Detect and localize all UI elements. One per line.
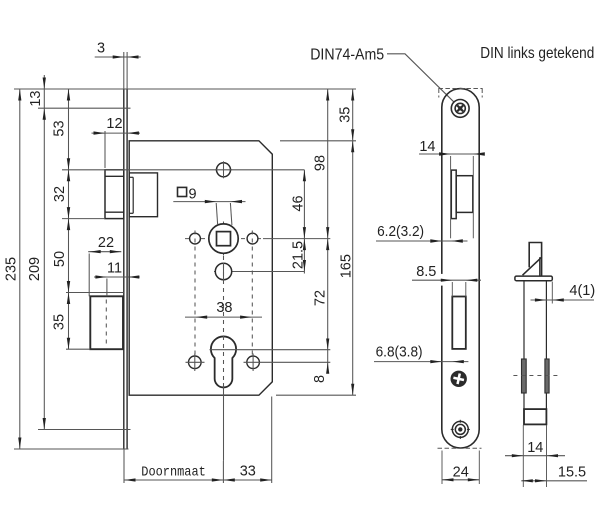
svg-text:8.5: 8.5 <box>416 264 436 280</box>
svg-text:35: 35 <box>51 314 67 330</box>
follower boss right <box>545 359 549 393</box>
svg-text:6.8(3.8): 6.8(3.8) <box>376 344 423 360</box>
faceplate cross-section <box>515 276 552 281</box>
svg-text:24: 24 <box>453 464 469 480</box>
top fixing screw <box>451 100 469 118</box>
centre line dashed <box>513 375 559 377</box>
latch bolt top view <box>529 243 541 277</box>
svg-text:32: 32 <box>52 186 68 202</box>
latch bevel <box>523 257 542 275</box>
svg-text:50: 50 <box>52 251 68 267</box>
latch bolt tail inside case <box>129 173 157 217</box>
centre line through follower top hole <box>62 169 304 171</box>
dimension 14 extension lines right view <box>522 425 524 487</box>
dimension 38 line <box>185 316 262 318</box>
svg-text:14: 14 <box>419 139 435 155</box>
bottom hole right <box>247 356 260 369</box>
svg-text:21.5: 21.5 <box>291 241 307 269</box>
svg-text:53: 53 <box>52 120 68 136</box>
case end block <box>524 409 546 424</box>
follower top hole <box>217 163 231 177</box>
case sides top view <box>523 281 525 425</box>
centre line through middle hole <box>214 271 304 273</box>
dimension 98/72/8 line <box>327 89 329 368</box>
dimension 53/32/50/35 line <box>68 89 70 349</box>
bottom hole left <box>189 356 202 369</box>
dimension 46/21.5 line <box>303 170 305 274</box>
dimension 6.2(3.2) line <box>376 240 468 242</box>
dimension 4(1) line <box>531 299 595 301</box>
dimension 15.5 line <box>521 480 587 482</box>
euro profile cylinder hole <box>211 336 236 387</box>
dimension 6.8(3.8) line <box>374 361 468 363</box>
svg-text:98: 98 <box>313 155 329 171</box>
dimension 3 extension lines <box>123 52 125 89</box>
leader line to faceplate <box>387 54 454 102</box>
latch bolt front view body <box>456 176 473 213</box>
svg-text:35: 35 <box>337 107 353 123</box>
svg-text:209: 209 <box>27 257 43 281</box>
dimension square 9 line <box>173 201 245 203</box>
extension line 50/35 boundary <box>66 292 124 294</box>
doornmaat extension lines <box>123 449 125 483</box>
dimension 11 line <box>106 279 108 297</box>
extension line deadbolt bottom <box>66 348 90 350</box>
dimension 3 line <box>95 56 141 58</box>
doornmaat dimension line <box>124 479 272 481</box>
svg-text:12: 12 <box>106 116 122 132</box>
dimension 14 line <box>419 153 483 155</box>
dimension 35/165 line <box>352 89 354 395</box>
deadbolt slot <box>452 297 466 349</box>
deadbolt centre line dashed <box>105 300 107 346</box>
dimension 8.5 extension lines <box>451 282 453 297</box>
lock case body outline <box>129 141 272 395</box>
svg-text:14: 14 <box>527 440 543 456</box>
svg-text:11: 11 <box>107 261 122 277</box>
9mm square spindle hole <box>217 232 231 246</box>
dimension 12 line <box>104 131 106 168</box>
svg-text:4(1): 4(1) <box>569 283 595 299</box>
svg-text:13: 13 <box>28 91 44 107</box>
dimension square 9 text <box>178 187 187 196</box>
middle countersunk screw <box>451 371 466 386</box>
bottom fixing screw <box>452 421 468 437</box>
fixing hole left of nut <box>190 233 201 244</box>
dimension 14 line right view <box>505 455 565 457</box>
svg-text:9: 9 <box>188 187 196 203</box>
svg-text:3: 3 <box>97 40 105 56</box>
break in plate edge at 8.5 arrow <box>441 274 443 286</box>
svg-text:72: 72 <box>313 290 329 306</box>
latch bolt head <box>105 170 124 219</box>
svg-text:DIN links getekend: DIN links getekend <box>480 45 594 62</box>
follower boss left <box>522 359 527 393</box>
dimension 235 line <box>19 89 21 449</box>
dashed hole centre line left <box>194 231 196 357</box>
dashed square-end option top <box>438 88 482 90</box>
spindle nut centre lines <box>185 238 263 240</box>
svg-text:165: 165 <box>339 254 355 278</box>
svg-text:235: 235 <box>4 257 20 281</box>
svg-text:6.2(3.2): 6.2(3.2) <box>377 224 424 240</box>
svg-text:Doornmaat: Doornmaat <box>141 466 206 481</box>
dimension 13/209 line <box>43 75 45 430</box>
svg-text:DIN74-Am5: DIN74-Am5 <box>310 47 384 64</box>
middle hole <box>215 263 231 279</box>
extension line latch bottom <box>62 218 105 220</box>
latch bolt front view lip <box>451 170 456 219</box>
spindle follower nut <box>209 224 238 253</box>
svg-text:15.5: 15.5 <box>558 464 586 480</box>
dashed square-end option bottom <box>438 447 482 449</box>
fixing hole right of nut <box>247 233 258 244</box>
svg-text:8: 8 <box>312 375 328 383</box>
dimension 24 extension lines <box>441 451 443 485</box>
svg-text:33: 33 <box>240 464 256 480</box>
dimension 8.5 line <box>412 279 481 281</box>
svg-text:38: 38 <box>216 300 232 316</box>
faceplate edge view (left) <box>123 89 125 449</box>
svg-text:22: 22 <box>98 235 114 251</box>
deadbolt head <box>90 296 123 349</box>
faceplate front view outline <box>442 89 479 448</box>
dashed hole centre line right <box>251 231 253 357</box>
dimension 14 extension lines <box>450 156 452 238</box>
euro cylinder centre lines <box>210 349 331 351</box>
dimension 24 line <box>442 479 479 481</box>
dimension 22 line <box>88 254 90 297</box>
svg-text:46: 46 <box>291 195 307 211</box>
